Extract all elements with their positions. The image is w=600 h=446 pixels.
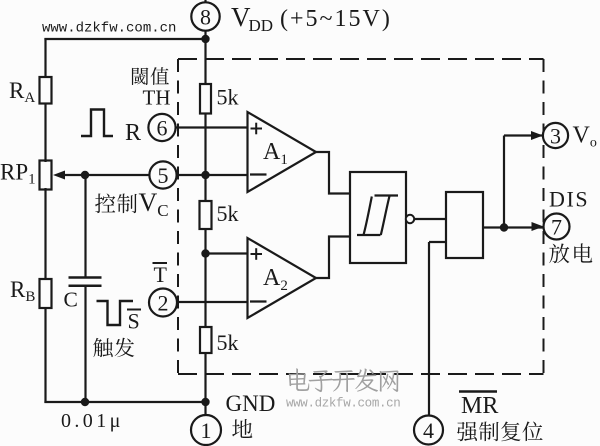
output buffer block (446, 192, 483, 258)
svg-text:MR: MR (461, 393, 498, 419)
wire ground rail bottom (44, 401, 206, 403)
wire left branch vertical (RA-RP1-RB chain) (44, 38, 46, 403)
svg-text:5k: 5k (217, 201, 239, 226)
wire VDD top rail from left branch to pin 8 node (44, 38, 206, 40)
svg-text:6: 6 (157, 116, 168, 141)
wire pin 6 to comparator A1 non-inverting input (176, 126, 248, 128)
svg-text:3: 3 (550, 124, 561, 149)
svg-text:TH: TH (143, 86, 171, 110)
svg-text:0.01μ: 0.01μ (61, 410, 124, 432)
svg-text:GND: GND (226, 391, 276, 416)
capacitor C plates (69, 278, 102, 286)
resistor 5k upper (200, 84, 211, 114)
wire A2 output to schmitt trigger (316, 237, 350, 279)
wire resistor divider vertical (204, 30, 206, 416)
wire pin 2 to comparator A2 inverting input (177, 301, 248, 303)
resistor 5k lower (200, 327, 212, 353)
label A2 minus input (250, 300, 267, 302)
schmitt hysteresis symbol (357, 196, 398, 236)
resistor RB (40, 279, 52, 308)
resistor RA (40, 77, 52, 104)
svg-text:(+5~15V): (+5~15V) (280, 6, 392, 32)
pin 4 (414, 416, 443, 445)
wire capacitor branch vertical (84, 174, 86, 402)
label ground chinese (232, 419, 252, 438)
svg-text:S: S (128, 309, 140, 334)
svg-text:2: 2 (158, 291, 169, 316)
resistor 5k middle (200, 201, 212, 229)
wire schmitt output to buffer (414, 218, 446, 220)
positive pulse waveform at R input (81, 110, 113, 137)
wire buffer output to pin 7 (483, 226, 543, 228)
potentiometer RP1 (40, 161, 52, 190)
label discharge chinese (549, 243, 569, 263)
svg-text:5k: 5k (217, 330, 239, 355)
arrowhead RP1 wiper (53, 171, 65, 180)
label forced reset chinese (457, 422, 477, 441)
pin 7 (544, 214, 570, 240)
node divider tap 1/3 VDD (201, 249, 209, 257)
pin 5 (149, 161, 176, 188)
svg-text:C: C (64, 288, 78, 312)
svg-text:T: T (154, 262, 168, 287)
label control chinese + VC (95, 188, 169, 220)
svg-text:R: R (125, 120, 141, 146)
svg-text:4: 4 (423, 418, 434, 443)
svg-text:www.dzkfw.com.cn: www.dzkfw.com.cn (42, 21, 176, 37)
label S with overbar (127, 309, 141, 334)
watermark bottom logo (289, 368, 310, 391)
wire RP1 wiper to pin 5 and comparator A1 inverting input (60, 174, 248, 176)
node RP1 wiper / control junction (81, 171, 89, 179)
arrowhead into pin 3 (531, 131, 543, 140)
node capacitor to ground rail junction (81, 398, 89, 406)
negative pulse waveform at trigger (97, 301, 134, 325)
svg-text:8: 8 (200, 5, 211, 30)
op-amp comparator A2 (248, 238, 317, 318)
svg-text:1: 1 (201, 418, 212, 443)
pin 6 (148, 114, 175, 141)
node control voltage junction at divider (201, 171, 209, 179)
label A1 plus input (251, 123, 263, 135)
label MR with overbar (459, 392, 498, 420)
wire A1 output to schmitt trigger (316, 152, 350, 194)
svg-text:www.dzkfw.com.cn: www.dzkfw.com.cn (286, 397, 400, 411)
wire MR vertical to pin 4 (428, 242, 430, 416)
wire output junction up to pin 3 level (503, 136, 505, 228)
label threshold chinese (132, 68, 148, 85)
label T with overbar (153, 262, 168, 287)
node VDD junction (201, 35, 209, 43)
svg-text:7: 7 (551, 215, 562, 240)
schmitt trigger flip-flop block U1 (350, 172, 406, 263)
node output junction (500, 223, 508, 231)
svg-text:DIS: DIS (549, 187, 589, 212)
wire MR into buffer (429, 241, 446, 243)
label trigger chinese (93, 338, 112, 357)
wire to pin 3 (504, 134, 542, 136)
inverting output bubble (406, 215, 414, 223)
svg-text:5k: 5k (217, 85, 239, 110)
pin 3 (543, 123, 568, 149)
wire divider tap to comparator A2 non-inverting input (205, 252, 248, 254)
IC internal boundary dashed box (178, 59, 544, 374)
pin 1 (191, 415, 221, 445)
arrowhead into pin 7 (532, 222, 544, 231)
label A2 plus input (251, 248, 263, 260)
node ground junction at pin 1 (201, 398, 209, 406)
op-amp comparator A1 (248, 112, 317, 192)
label A1 minus input (250, 173, 267, 175)
pin 8 (191, 2, 219, 30)
svg-text:5: 5 (158, 163, 169, 188)
wire pin 8 stub to top edge (204, 0, 206, 3)
pin 2 (149, 289, 177, 317)
